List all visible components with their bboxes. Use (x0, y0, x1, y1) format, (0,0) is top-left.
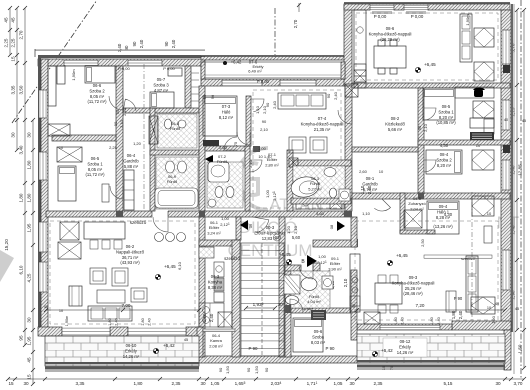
furniture radiator 09 (364, 312, 380, 324)
wall left rooms vertical (116, 66, 123, 212)
svg-text:Fürdő: Fürdő (217, 159, 228, 164)
ceiling dash apt07 (253, 90, 341, 208)
svg-text:1,80: 1,80 (27, 193, 32, 202)
svg-text:1,90m: 1,90m (65, 316, 69, 327)
svg-text:6,10: 6,10 (19, 265, 24, 274)
svg-text:Erkély: Erkély (399, 344, 412, 349)
wall apt09 szoba left (285, 265, 291, 357)
svg-text:+6,42: +6,42 (381, 348, 393, 353)
svg-text:90: 90 (164, 41, 169, 46)
svg-text:(11,72 m²): (11,72 m²) (85, 172, 105, 177)
svg-text:90: 90 (326, 93, 331, 98)
svg-text:45: 45 (515, 307, 519, 311)
furniture bath06-9 tiles (156, 157, 198, 209)
vent box wall G (345, 84, 358, 97)
svg-text:00-3: 00-3 (266, 225, 275, 230)
svg-text:1,80: 1,80 (134, 381, 143, 386)
svg-text:(26,29 m²): (26,29 m²) (380, 37, 400, 42)
svg-text:1,90m: 1,90m (71, 69, 76, 81)
svg-text:P 90: P 90 (249, 346, 259, 351)
svg-text:2,08 m²: 2,08 m² (209, 343, 223, 348)
wall kamra left (197, 327, 203, 357)
furniture xcol gardrob (149, 116, 158, 144)
furniture chair 08b (474, 62, 494, 81)
wall szoba3 bottom (123, 108, 199, 113)
furniture shower 09 (404, 210, 422, 228)
outer wall bottom-mid-right (357, 324, 452, 330)
svg-text:2,40: 2,40 (115, 318, 119, 325)
svg-text:Szoba 1: Szoba 1 (438, 109, 454, 114)
svg-text:2,40: 2,40 (458, 310, 463, 319)
wall apt08 szoba divider (418, 140, 510, 145)
svg-text:5,15: 5,15 (444, 381, 453, 386)
furniture bed szoba2 (85, 66, 115, 83)
svg-text:45: 45 (4, 17, 9, 23)
svg-text:08-2: 08-2 (391, 116, 400, 121)
svg-text:45: 45 (44, 305, 48, 309)
junction blocks (116, 211, 123, 217)
svg-text:10: 10 (59, 309, 63, 313)
svg-text:3,90 m²: 3,90 m² (328, 266, 342, 271)
door corridor arc (253, 217, 269, 233)
svg-text:+6,42: +6,42 (231, 60, 242, 65)
svg-text:1,90m: 1,90m (465, 14, 470, 26)
svg-text:09-6: 09-6 (314, 329, 323, 334)
furniture tub 08 (289, 175, 320, 200)
svg-text:15: 15 (27, 374, 32, 380)
furniture wc 09 (286, 296, 299, 305)
wall apt07 bath right (245, 146, 250, 211)
furniture kamra shelf (218, 312, 232, 327)
svg-text:8,20 m²: 8,20 m² (437, 163, 452, 168)
svg-text:1,80: 1,80 (27, 160, 32, 169)
svg-text:1,00: 1,00 (318, 254, 327, 259)
svg-text:8,20 m²: 8,20 m² (439, 115, 454, 120)
svg-text:P 90: P 90 (454, 296, 463, 301)
balcony 06-10 rim (45, 362, 199, 364)
svg-text:1,20: 1,20 (286, 225, 291, 234)
svg-text:06: 06 (248, 223, 253, 228)
svg-text:2,10: 2,10 (423, 123, 428, 132)
svg-text:1,95: 1,95 (27, 223, 32, 232)
svg-text:2,35: 2,35 (172, 381, 181, 386)
window apt08 top (370, 5, 394, 11)
wall under 06-1 (199, 240, 240, 246)
svg-text:2,35: 2,35 (374, 381, 383, 386)
window apt08 right3 (502, 160, 510, 190)
svg-text:14,26 m²: 14,26 m² (397, 350, 414, 355)
window top szoba3 (128, 60, 162, 66)
balcony 07-6 floor (201, 62, 345, 79)
wall bath08-3 left (287, 150, 293, 211)
furniture tv 06 (69, 286, 82, 306)
wall zuhanyzo (400, 193, 405, 233)
svg-text:95: 95 (19, 335, 24, 341)
door halo07b (224, 137, 237, 150)
furniture washer 09 (322, 276, 333, 289)
wall bath08-3 bottom (291, 198, 351, 204)
svg-text:2,40: 2,40 (171, 39, 176, 48)
svg-text:90: 90 (113, 121, 118, 126)
ceiling dash apt09 (355, 221, 498, 320)
svg-text:90: 90 (203, 95, 207, 99)
svg-text:30: 30 (200, 381, 206, 386)
wall gardrob-bath divider (150, 108, 155, 211)
entry arrow apt09 (307, 255, 317, 267)
svg-text:8,12 m²: 8,12 m² (219, 115, 234, 120)
svg-text:1,80: 1,80 (19, 193, 24, 202)
svg-text:2,40: 2,40 (272, 100, 277, 109)
svg-text:2,40: 2,40 (401, 317, 405, 324)
furniture kitchen 09 (350, 254, 360, 312)
right reference line (520, 0, 522, 378)
svg-text:Konyha-étkező-nappali: Konyha-étkező-nappali (369, 31, 412, 36)
svg-text:2,10: 2,10 (262, 105, 267, 114)
svg-text:06-10: 06-10 (126, 343, 137, 348)
svg-text:(13,26 m²): (13,26 m²) (433, 224, 453, 229)
roof overhang line top-left (35, 50, 205, 51)
svg-text:1,95: 1,95 (27, 336, 32, 345)
svg-text:90: 90 (417, 125, 422, 130)
svg-text:Közlekedő: Közlekedő (385, 121, 405, 126)
furniture xbox szoba1 (57, 147, 82, 162)
wall apt09 entry (313, 240, 357, 247)
svg-text:5,88 m²: 5,88 m² (124, 164, 139, 169)
svg-text:1,50: 1,50 (518, 344, 523, 353)
svg-text:2,10: 2,10 (260, 127, 269, 132)
svg-text:1,80: 1,80 (451, 310, 456, 319)
svg-text:1,10: 1,10 (255, 105, 260, 114)
centerline right column (471, 192, 473, 330)
furniture bath09 tiles (291, 271, 330, 308)
level marker corridor (286, 259, 291, 264)
svg-text:2,10: 2,10 (293, 225, 298, 234)
svg-text:Szoba: Szoba (312, 334, 325, 339)
wall apt09 kitchen bottom (351, 270, 357, 340)
svg-text:1,80: 1,80 (108, 318, 112, 325)
bottom dimension chain (8, 378, 524, 380)
furniture bath08 tiles (293, 166, 345, 198)
window apt08 right1 (502, 30, 510, 64)
wall bath08-3 top (293, 160, 351, 166)
svg-text:09-4: 09-4 (439, 204, 448, 209)
svg-text:Szoba 2: Szoba 2 (436, 157, 452, 162)
furniture kitchen 06 lower (199, 303, 224, 327)
svg-text:5,27 m²: 5,27 m² (308, 186, 322, 191)
svg-text:8,03 m²: 8,03 m² (311, 340, 326, 345)
outer wall bottom-right thick (452, 321, 511, 330)
svg-text:30: 30 (349, 381, 355, 386)
svg-text:+6,45: +6,45 (396, 253, 408, 258)
svg-text:90: 90 (132, 41, 137, 46)
svg-text:2,40: 2,40 (209, 313, 214, 322)
svg-text:(28,46 m²): (28,46 m²) (403, 291, 423, 296)
svg-text:szellőző: szellőző (461, 257, 475, 261)
svg-text:30: 30 (27, 132, 32, 138)
svg-text:1,05: 1,05 (334, 381, 343, 386)
wall szoba2/szoba1 (52, 135, 116, 141)
svg-text:10: 10 (59, 146, 63, 150)
furniture dark dresser (470, 132, 494, 140)
furniture xbox szoba2 win (48, 124, 70, 136)
furniture wc 07 (215, 187, 223, 198)
svg-text:5,66 m²: 5,66 m² (388, 127, 403, 132)
svg-text:4,30: 4,30 (440, 143, 449, 148)
svg-text:Gardrób: Gardrób (362, 181, 378, 186)
furniture sofa 06 (88, 306, 132, 321)
svg-text:8,38 m²: 8,38 m² (208, 285, 223, 290)
furniture tub 06-9 (155, 188, 198, 208)
svg-text:2,04 m²: 2,04 m² (410, 206, 424, 211)
furniture armchair 06a (90, 268, 106, 284)
furniture bed szoba1 (58, 166, 76, 201)
svg-text:1,00: 1,00 (265, 189, 270, 198)
svg-text:7,20: 7,20 (416, 303, 425, 308)
svg-text:Erkély: Erkély (125, 348, 138, 353)
svg-text:2,10: 2,10 (248, 159, 253, 168)
door apt07 entry (250, 160, 262, 172)
svg-text:Háló 1: Háló 1 (437, 209, 450, 214)
svg-text:Konyha-étkező-nappali: Konyha-étkező-nappali (301, 121, 344, 126)
svg-text:10: 10 (487, 306, 491, 310)
wall between balcony and apt 08 (344, 5, 352, 86)
svg-text:07-4: 07-4 (318, 116, 327, 121)
outer wall top-right (344, 2, 510, 4)
svg-text:21,35 m²: 21,35 m² (314, 127, 331, 132)
balcony 08-12 label (383, 338, 427, 357)
vent circles (155, 233, 164, 242)
door szoba2 (109, 96, 123, 110)
level marker apt08 (415, 67, 420, 72)
outer wall top-left (38, 55, 205, 58)
furniture wardrobe 08 (470, 118, 494, 128)
furniture chair 09c (446, 291, 456, 312)
wall apt09 kitchen left (351, 217, 357, 247)
svg-text:2,25: 2,25 (4, 38, 9, 47)
svg-text:1,90: 1,90 (491, 315, 496, 324)
svg-text:2,25: 2,25 (109, 145, 118, 150)
svg-text:2,40: 2,40 (437, 317, 441, 324)
furniture bed szoba09 (293, 318, 323, 352)
svg-text:30: 30 (11, 132, 16, 138)
wall halo07 right upper (246, 96, 251, 146)
furniture chair 09a (472, 196, 494, 216)
svg-text:90: 90 (211, 95, 215, 99)
door nappali wide (153, 217, 168, 232)
furniture chair 08c (473, 101, 494, 118)
balcony 06-10 brick floor (45, 336, 199, 366)
door apt08 entry (338, 110, 352, 124)
svg-text:3,40: 3,40 (19, 145, 24, 154)
svg-text:2,40: 2,40 (333, 91, 338, 100)
svg-text:3,40: 3,40 (117, 43, 122, 52)
svg-text:3,70: 3,70 (514, 381, 523, 386)
furniture wc pair 06-9 (166, 161, 175, 173)
svg-text:36,71 m²: 36,71 m² (122, 255, 139, 260)
svg-text:2,70: 2,70 (19, 30, 24, 39)
svg-text:5,70 m²: 5,70 m² (363, 187, 378, 192)
furniture dining 09 (375, 283, 402, 304)
svg-text:2,80 m²: 2,80 m² (265, 162, 279, 167)
furniture bath06-8 fixtures (164, 119, 171, 129)
door szoba2-08 (424, 160, 436, 172)
svg-text:45: 45 (11, 17, 16, 23)
wall apt09 bath bottom (285, 308, 351, 313)
svg-text:7,00: 7,00 (122, 303, 131, 308)
svg-text:90: 90 (246, 367, 251, 372)
svg-text:Szoba 1: Szoba 1 (87, 161, 103, 166)
window nappali left2 (39, 262, 47, 292)
balcony 07-6 rail lines (205, 61, 341, 63)
svg-text:15: 15 (8, 381, 14, 386)
balcony 08-12 rim (357, 360, 505, 362)
stair flight B dash (261, 243, 263, 356)
balcony right side wall (504, 330, 511, 370)
svg-text:8,28 m²: 8,28 m² (436, 215, 451, 220)
svg-text:Előtér-lépcsőház: Előtér-lépcsőház (254, 230, 285, 235)
svg-text:3,24 m²: 3,24 m² (207, 230, 221, 235)
furniture bed halo07 (203, 96, 237, 136)
level marker nappali (155, 274, 160, 279)
furniture dresser szoba3 (168, 68, 182, 76)
svg-text:06-6: 06-6 (93, 83, 102, 88)
svg-text:07-3: 07-3 (222, 104, 231, 109)
diagonal reference line (12, 0, 97, 123)
window apt07 top2 (280, 80, 316, 86)
balcony 06-10 level (153, 348, 158, 353)
furniture kitchen 07 (296, 197, 344, 209)
wall szoba3 right (185, 66, 191, 108)
interior dim line 06 (46, 309, 199, 311)
furniture wardrobe szoba2 (48, 66, 56, 106)
svg-text:05-7: 05-7 (157, 77, 166, 82)
svg-text:4,04 m²: 4,04 m² (307, 299, 321, 304)
svg-text:1,50: 1,50 (225, 365, 230, 374)
svg-text:+6,42: +6,42 (163, 343, 175, 348)
svg-text:2,70: 2,70 (293, 19, 298, 28)
svg-text:5,60: 5,60 (292, 235, 301, 240)
svg-text:06-2: 06-2 (126, 244, 135, 249)
svg-text:1,10: 1,10 (362, 211, 371, 216)
svg-text:P 90: P 90 (326, 346, 336, 351)
svg-text:2,10: 2,10 (119, 119, 124, 128)
svg-text:2,40: 2,40 (139, 39, 144, 48)
svg-text:08-4: 08-4 (440, 152, 449, 157)
svg-text:15: 15 (11, 56, 16, 62)
wall stairwell left (199, 217, 205, 357)
vent shaft konyha06 (199, 247, 214, 258)
svg-text:08-12: 08-12 (400, 339, 411, 344)
entry arrow apt07 (205, 155, 213, 164)
svg-text:2,10: 2,10 (343, 278, 348, 287)
svg-text:szellőző: szellőző (130, 220, 147, 225)
balcony 08-12 level (372, 351, 377, 356)
ceiling dash nappali (50, 221, 195, 324)
svg-text:1,80: 1,80 (430, 317, 434, 324)
window apt09 right4 (502, 250, 510, 290)
svg-text:3,50: 3,50 (19, 85, 24, 94)
svg-text:2,40: 2,40 (148, 318, 152, 325)
svg-text:6,10: 6,10 (177, 261, 182, 270)
wall gardrob08 top (352, 147, 418, 152)
furniture dining table 06 (84, 222, 125, 239)
svg-text:75: 75 (389, 365, 394, 370)
interior dim line 09 (357, 309, 505, 311)
furniture couch 08 (460, 14, 472, 62)
furniture sink 09 (301, 278, 317, 291)
entry arrow corridor right (337, 221, 345, 231)
window szoba1 left (39, 152, 47, 180)
furniture shower 09-2 (284, 275, 300, 294)
svg-text:Szoba 2: Szoba 2 (89, 88, 105, 93)
svg-text:15,20: 15,20 (4, 239, 9, 251)
furniture bed szoba2-08 (426, 150, 462, 174)
svg-text:25,26 m²: 25,26 m² (405, 286, 422, 291)
stairwell west wall (232, 240, 240, 357)
door szoba1-08 (424, 108, 436, 120)
door gardrob08 (374, 199, 390, 211)
furniture bath07 tiles (207, 162, 243, 208)
svg-text:1,00: 1,00 (221, 216, 230, 221)
door apt09 szoba (290, 299, 303, 312)
balcony 07-6 top wall (201, 55, 345, 57)
svg-text:10: 10 (476, 143, 481, 148)
svg-text:06-4: 06-4 (127, 153, 136, 158)
svg-text:P 0,00: P 0,00 (374, 14, 387, 19)
furniture tub 07 (208, 162, 229, 182)
svg-text:06-5: 06-5 (91, 156, 100, 161)
svg-text:szellőző: szellőző (224, 256, 240, 261)
furniture armchair 06b (112, 268, 128, 286)
wall bath divider 06 (150, 150, 199, 155)
furniture kitchen 06 units (214, 262, 224, 277)
svg-text:75: 75 (234, 142, 238, 146)
furniture coffee table 06 (97, 290, 125, 303)
svg-text:4,25: 4,25 (27, 273, 32, 282)
svg-text:40: 40 (495, 302, 499, 306)
svg-text:14,26 m²: 14,26 m² (123, 354, 140, 359)
svg-text:45: 45 (522, 119, 526, 123)
furniture armchair 07a (289, 137, 306, 153)
svg-text:Konyha-étkező-nappali: Konyha-étkező-nappali (392, 280, 435, 285)
right dimension chain (516, 10, 518, 330)
svg-text:10: 10 (379, 169, 384, 174)
window nappali left1 (39, 222, 47, 252)
svg-text:1,80: 1,80 (141, 318, 145, 325)
furniture bath06-8 tiles (157, 114, 197, 148)
svg-text:08: 08 (329, 224, 334, 229)
svg-text:Nappali-étkező: Nappali-étkező (116, 249, 145, 254)
svg-text:(10,85 m²): (10,85 m²) (436, 120, 456, 125)
svg-text:12,85: 12,85 (518, 164, 523, 176)
right thin line (513, 4, 515, 374)
furniture bed halo09 (427, 201, 459, 234)
svg-text:P 0,00: P 0,00 (411, 14, 424, 19)
shaft ladder (191, 72, 199, 74)
svg-text:6,49 m²: 6,49 m² (248, 69, 262, 74)
balcony 08-12 brick floor (357, 334, 505, 363)
svg-text:90: 90 (262, 119, 267, 124)
wall kamra top (203, 329, 235, 332)
door szoba3 (123, 99, 136, 112)
furniture xbox nappali (60, 222, 79, 240)
svg-text:1,05: 1,05 (211, 381, 220, 386)
svg-text:8,05 m²: 8,05 m² (88, 167, 103, 172)
furniture gardrob shelves (124, 170, 134, 210)
svg-text:45: 45 (184, 338, 188, 342)
watermark logo (236, 148, 268, 210)
entry arrow apt06 (240, 220, 248, 230)
